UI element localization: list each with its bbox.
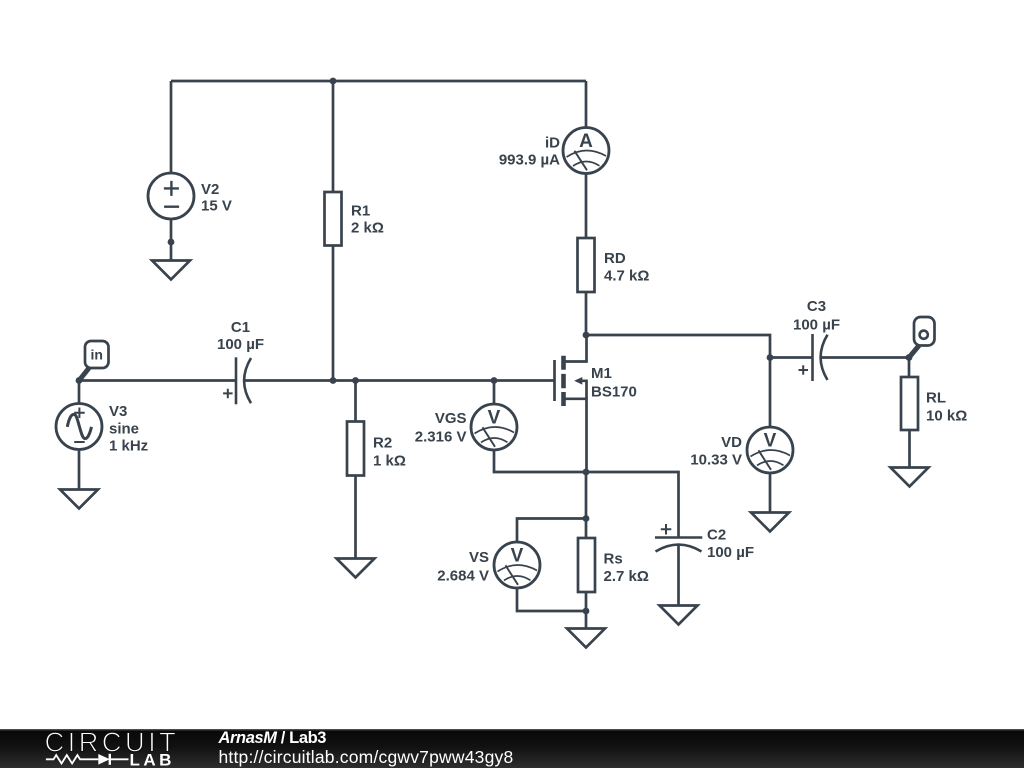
node VD tap: [767, 354, 774, 361]
svg-text:ArnasM / Lab3: ArnasM / Lab3: [218, 729, 327, 747]
label M1: [591, 365, 637, 401]
ground Rs: [567, 629, 605, 648]
node input: [76, 377, 83, 384]
svg-text:V3: V3: [109, 403, 127, 420]
voltmeter VGS: [471, 404, 517, 450]
wire R1 bottom lead: [332, 246, 335, 381]
wire C3 to output node: [821, 356, 909, 359]
logo zigzag and diode: [46, 754, 129, 765]
resistor RL: [901, 377, 918, 430]
wire VD top lead: [769, 358, 772, 428]
dc source V2: [148, 173, 194, 219]
footer bar: [0, 729, 1024, 768]
node drain: [583, 332, 590, 339]
resistor RD: [578, 238, 595, 292]
wire Rs top lead: [585, 519, 588, 539]
wire C2 to ground: [677, 545, 680, 605]
svg-text:RD: RD: [604, 250, 626, 267]
svg-text:M1: M1: [591, 365, 612, 382]
label RL: [926, 390, 967, 425]
node R1 tap: [330, 377, 337, 384]
svg-text:993.9 µA: 993.9 µA: [499, 152, 560, 169]
flag o: [909, 317, 935, 358]
label RD: [604, 250, 649, 285]
label R2: [373, 435, 406, 470]
wire Rs bottom lead: [585, 592, 588, 629]
wire ammeter to RD: [585, 174, 588, 239]
ammeter iD: [563, 128, 609, 174]
svg-text:iD: iD: [545, 135, 560, 152]
wire input node to C1: [79, 379, 236, 382]
node V2 ground: [168, 239, 175, 246]
label C2: [707, 527, 754, 562]
svg-text:VGS: VGS: [435, 410, 467, 427]
svg-text:http://circuitlab.com/cgwv7pww: http://circuitlab.com/cgwv7pww43gy8: [219, 747, 514, 767]
svg-text:V: V: [488, 408, 501, 429]
resistor R1: [325, 192, 342, 246]
ground C2: [660, 606, 698, 625]
svg-text:A: A: [579, 131, 593, 152]
ground R2: [337, 559, 375, 578]
svg-text:V2: V2: [201, 181, 219, 198]
wire R1 top lead: [332, 81, 335, 192]
voltmeter VS: [494, 542, 540, 588]
svg-text:RL: RL: [926, 390, 946, 407]
wire drain rail to output branch: [586, 335, 770, 358]
svg-text:2.684 V: 2.684 V: [437, 568, 489, 585]
svg-text:sine: sine: [109, 421, 139, 438]
node Rs top: [583, 515, 590, 522]
svg-text:V: V: [764, 431, 777, 452]
svg-text:R1: R1: [351, 203, 370, 220]
voltmeter VD: [747, 427, 793, 473]
capacitor C3: [799, 334, 828, 381]
svg-text:C2: C2: [707, 527, 726, 544]
label V2: [201, 181, 232, 215]
node output: [906, 354, 913, 361]
node source: [583, 469, 590, 476]
node Rs bottom: [583, 608, 590, 615]
label C3: [793, 298, 840, 334]
wire ammeter top lead: [585, 81, 588, 128]
svg-text:R2: R2: [373, 435, 392, 452]
svg-text:VS: VS: [469, 549, 489, 566]
wire VD to ground: [769, 473, 772, 513]
wire V3 to ground: [78, 450, 81, 490]
svg-text:VD: VD: [721, 434, 742, 451]
wire VD node to C3: [770, 356, 813, 359]
wire top rail: [171, 80, 586, 83]
svg-text:Rs: Rs: [604, 551, 623, 568]
capacitor C1: [223, 357, 251, 404]
resistor R2: [347, 422, 364, 476]
svg-text:100 µF: 100 µF: [793, 317, 840, 334]
svg-text:C1: C1: [231, 319, 250, 336]
wire VS bottom lead: [517, 588, 586, 611]
flag in: [79, 341, 109, 381]
wire VGS bottom to source node: [494, 450, 586, 472]
wire VGS top lead: [493, 381, 496, 405]
svg-text:in: in: [90, 347, 102, 363]
label VD: [690, 434, 742, 469]
svg-text:10.33 V: 10.33 V: [690, 452, 742, 469]
node top rail R1: [330, 78, 337, 85]
svg-text:BS170: BS170: [591, 384, 637, 401]
label R1: [351, 203, 384, 237]
wire V2 top lead: [170, 81, 173, 173]
ground VD: [751, 513, 789, 532]
svg-text:2 kΩ: 2 kΩ: [351, 220, 384, 237]
mosfet M1: [555, 335, 587, 472]
label VS: [437, 549, 489, 585]
wire C2 top lead: [586, 472, 679, 538]
svg-text:1 kΩ: 1 kΩ: [373, 453, 406, 470]
wire RD to drain node: [585, 292, 588, 335]
svg-text:100 µF: 100 µF: [707, 544, 754, 561]
wire RL to ground: [908, 430, 911, 468]
label C1: [217, 319, 264, 353]
svg-text:2.7 kΩ: 2.7 kΩ: [604, 568, 649, 585]
svg-text:V: V: [511, 546, 524, 567]
wire C1 to gate: [245, 379, 555, 382]
wire R2 to ground: [354, 476, 357, 559]
svg-text:15 V: 15 V: [201, 198, 232, 215]
svg-text:C3: C3: [807, 298, 826, 315]
capacitor C2: [655, 524, 702, 552]
wire V2 to ground: [170, 219, 173, 261]
label iD: [499, 135, 560, 169]
label VGS: [415, 410, 467, 446]
wire V3 top lead: [78, 381, 81, 404]
resistor Rs: [578, 538, 595, 592]
svg-text:4.7 kΩ: 4.7 kΩ: [604, 268, 649, 285]
node VGS tap: [491, 377, 498, 384]
svg-text:10 kΩ: 10 kΩ: [926, 408, 967, 425]
svg-text:1 kHz: 1 kHz: [109, 438, 148, 455]
wire R2 top lead: [354, 381, 357, 422]
ground V2: [152, 261, 190, 280]
wire RL top lead: [908, 358, 911, 378]
svg-text:LAB: LAB: [130, 751, 175, 768]
ground V3: [60, 490, 98, 509]
node R2 tap: [352, 377, 359, 384]
wire source node down: [585, 472, 588, 519]
svg-text:100 µF: 100 µF: [217, 336, 264, 353]
ground RL: [891, 468, 929, 487]
sine source V3: [56, 404, 102, 450]
wire VS top lead: [517, 519, 586, 543]
label Rs: [604, 551, 649, 586]
label V3: [109, 403, 148, 455]
svg-text:2.316 V: 2.316 V: [415, 429, 467, 446]
